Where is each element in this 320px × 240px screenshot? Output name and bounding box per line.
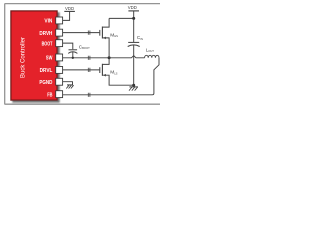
svg-text:BOOT: BOOT [42, 41, 53, 47]
svg-text:Buck Controller: Buck Controller [21, 37, 27, 78]
IC U1 Buck Controller body [11, 11, 57, 100]
svg-text:VDD: VDD [65, 6, 74, 11]
svg-text:VDD: VDD [128, 5, 137, 10]
svg-text:DRVH: DRVH [39, 31, 52, 37]
wire BOOT to C_BOOT [63, 43, 73, 49]
wire SW rail with hop over C_IN stem and inductor feed [63, 56, 145, 58]
svg-text:SW: SW [46, 56, 53, 62]
svg-text:VIN: VIN [44, 19, 52, 25]
wire PGND to ground [63, 82, 73, 85]
svg-text:FB: FB [47, 92, 52, 98]
pin SW square [56, 54, 63, 61]
pin DRVL square [56, 67, 63, 74]
svg-text:DRVL: DRVL [40, 68, 53, 74]
border frame (no right edge) [5, 4, 160, 105]
svg-text:PGND: PGND [39, 80, 52, 86]
pin VIN square [56, 17, 63, 24]
wire DRVL to M_LS gate [63, 69, 100, 71]
transistor Q2 M_LS [99, 67, 101, 73]
pin FB square [56, 91, 63, 98]
supply VDD1 bar [64, 10, 75, 12]
junction M_LS source / C_IN gnd [132, 84, 135, 87]
ground PGND symbol [67, 84, 73, 86]
capacitor C_IN [133, 18, 135, 42]
ground power stage [133, 85, 135, 87]
wire VOUT to FB [63, 58, 159, 95]
junction SW node [108, 56, 111, 59]
tick pair on DRVH wire [88, 31, 90, 35]
wire VIN to VDD1 [63, 11, 70, 20]
tick pair on SW wire [88, 56, 90, 60]
pin DRVH square [56, 29, 63, 36]
transistor Q1 M_HS [99, 30, 101, 36]
pin PGND square [56, 78, 63, 85]
pin BOOT square [56, 40, 63, 47]
inductor L_OUT [145, 55, 159, 58]
supply VDD2 bar [133, 11, 135, 19]
wire top rail drain to VDD2 [109, 17, 134, 19]
tick pair on DRVL wire [88, 68, 90, 72]
wire DRVH to M_HS gate [63, 32, 100, 34]
junction VDD2 rail [132, 17, 135, 20]
tick pair on FB wire [88, 93, 90, 97]
capacitor C_BOOT [69, 49, 78, 51]
junction C_BOOT/SW [72, 57, 74, 59]
